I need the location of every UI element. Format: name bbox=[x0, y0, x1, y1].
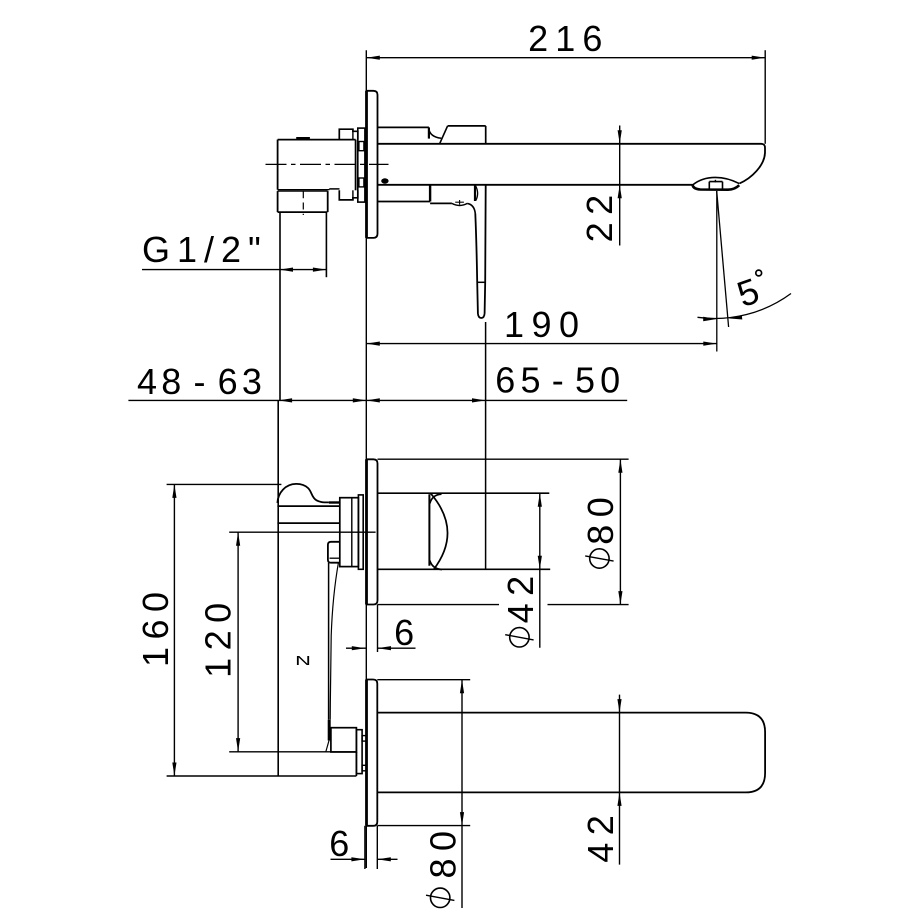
svg-text:42: 42 bbox=[580, 808, 621, 863]
wire phi80 lower top extension bbox=[377, 679, 470, 681]
wire 216 right extension line bbox=[764, 50, 766, 144]
svg-text:80: 80 bbox=[580, 490, 621, 545]
adjuster box on valve body bbox=[328, 542, 340, 563]
wire left extension to lower view bbox=[277, 400, 279, 776]
wire phi80 upper bottom extension bbox=[378, 604, 500, 606]
in-wall body bottom bbox=[355, 752, 357, 776]
dimension 42 line with arrows bbox=[619, 695, 621, 865]
svg-text:160: 160 bbox=[135, 584, 176, 667]
dimension 48-63 and 65-50 line with arrows bbox=[128, 399, 627, 401]
svg-text:N: N bbox=[295, 654, 311, 668]
svg-text:48-63: 48-63 bbox=[137, 361, 266, 402]
set screw detail under housing bbox=[452, 203, 467, 205]
wire wall-face extension line (vertical datum x=366) bbox=[365, 50, 367, 868]
dimension 160 line with arrows bbox=[173, 484, 175, 776]
wire 160 top extension bbox=[167, 483, 282, 485]
handle dome (side view) bbox=[428, 494, 430, 565]
dimension phi80 upper text bbox=[590, 549, 609, 568]
wire 120 top extension bbox=[229, 531, 375, 533]
horizontal dash-dot centerline bbox=[266, 163, 389, 165]
lower mounting nut stack bbox=[356, 730, 362, 774]
dimension phi80 lower line with arrows bbox=[461, 680, 463, 908]
dimension 6 upper (plate thickness) bbox=[377, 605, 379, 653]
label N on valve body bbox=[295, 654, 311, 668]
svg-text:120: 120 bbox=[198, 595, 239, 678]
dimension 190 line with arrows bbox=[366, 343, 717, 345]
valve housing under spout bbox=[429, 185, 431, 202]
lower wall plate (spout escutcheon) bbox=[366, 680, 377, 826]
mounting washer stack bbox=[358, 128, 365, 202]
dimension 6 lower (plate thickness) bbox=[364, 826, 366, 869]
arc of 5deg angular dimension bbox=[698, 294, 792, 319]
svg-text:6: 6 bbox=[329, 823, 349, 864]
lever arm (side view, edge-on) bbox=[328, 563, 330, 720]
dashed centerline of inlet pipe bbox=[302, 191, 304, 215]
screw dot on wall plate bbox=[381, 178, 388, 183]
svg-text:65-50: 65-50 bbox=[495, 360, 625, 401]
dimension 22 line with arrows bbox=[619, 126, 621, 246]
svg-text:42: 42 bbox=[500, 568, 541, 623]
wire phi80 upper top extension bbox=[378, 458, 629, 460]
wire vertical leg of 5deg angle bbox=[716, 191, 718, 352]
upper wall plate (mixer escutcheon) bbox=[366, 459, 377, 604]
upper mounting nut stack bbox=[340, 498, 359, 567]
svg-text:190: 190 bbox=[504, 304, 587, 345]
wire 120 bottom extension bbox=[229, 751, 356, 753]
wire 65-50 right extension / body edge bbox=[485, 322, 487, 569]
dimension 120 line with arrows bbox=[237, 532, 239, 751]
wire 160 bottom extension bbox=[167, 775, 357, 777]
dimension phi80 upper line with arrows bbox=[619, 459, 621, 604]
valve body behind wall (top view) bbox=[278, 139, 356, 141]
mixer body cylinder (side view) bbox=[378, 492, 550, 494]
wire slanted leg of 5deg angle bbox=[717, 191, 729, 327]
dimension G1/2 line with arrows bbox=[142, 269, 326, 271]
svg-text:6: 6 bbox=[394, 612, 414, 653]
lower connection elbow bbox=[331, 728, 357, 752]
svg-text:G1/2": G1/2" bbox=[142, 229, 268, 270]
in-wall valve hump profile bbox=[277, 484, 329, 503]
mounting nut lower bbox=[339, 190, 358, 200]
mounting nut upper bbox=[339, 129, 358, 139]
dimension phi80 lower text bbox=[431, 888, 450, 907]
inlet flange below body bbox=[277, 191, 279, 212]
dimension phi42 line with arrows bbox=[539, 493, 541, 648]
wire phi80 lower bottom extension bbox=[377, 825, 470, 827]
spout (top view) outline bbox=[378, 144, 765, 184]
upper connection tube lines bbox=[277, 505, 339, 507]
svg-text:216: 216 bbox=[528, 18, 609, 59]
wall plate (top view, side profile) bbox=[366, 91, 377, 238]
inlet pipe G1/2 stub bbox=[279, 212, 281, 400]
dimension phi42 text bbox=[510, 628, 529, 647]
aerator pod under spout tip bbox=[693, 177, 740, 185]
dimension 216 line with arrows bbox=[366, 57, 765, 59]
svg-text:80: 80 bbox=[423, 823, 464, 878]
spout (side view) bbox=[377, 713, 765, 793]
cartridge cover protrusion on spout bbox=[378, 126, 429, 128]
lever handle (top view) bbox=[474, 185, 476, 201]
svg-text:22: 22 bbox=[579, 187, 620, 242]
fillet housing-to-lever bbox=[467, 203, 475, 213]
